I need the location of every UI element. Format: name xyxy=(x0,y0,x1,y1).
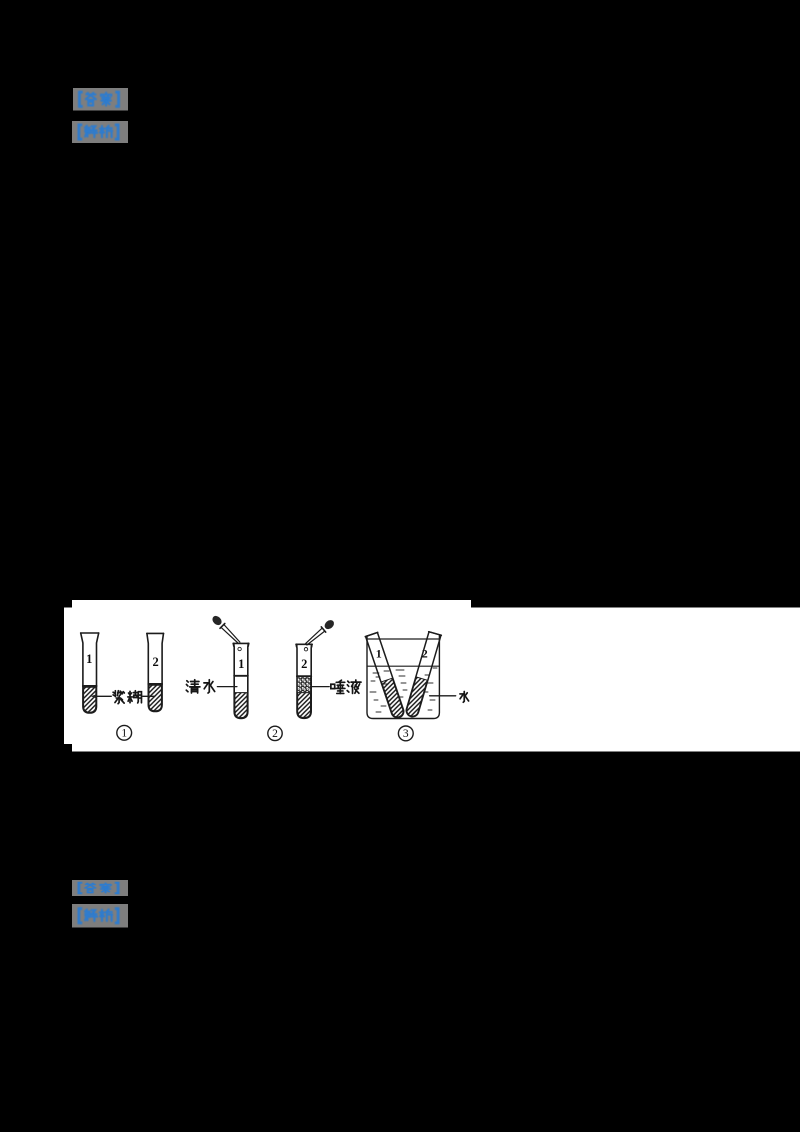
svg-text:2: 2 xyxy=(301,657,307,671)
svg-text:1: 1 xyxy=(121,728,127,740)
svg-text:2: 2 xyxy=(422,647,428,661)
svg-text:3: 3 xyxy=(403,728,409,740)
svg-text:2: 2 xyxy=(152,655,158,669)
svg-text:1: 1 xyxy=(86,652,92,666)
svg-text:2: 2 xyxy=(272,728,278,740)
svg-text:1: 1 xyxy=(238,657,244,671)
svg-text:1: 1 xyxy=(376,647,382,661)
